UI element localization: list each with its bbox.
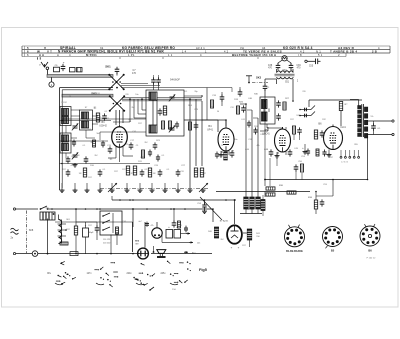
- pin circles B6: [340, 156, 342, 158]
- capacitor C24: [99, 169, 101, 172]
- wire SK2 to B3: [115, 110, 117, 125]
- svg-text:2: 2: [338, 53, 340, 57]
- ground row: [61, 189, 63, 191]
- wire speaker lo: [367, 134, 392, 136]
- svg-text:4 2: 4 2: [224, 50, 229, 54]
- svg-text:5k6: 5k6: [96, 133, 99, 135]
- left col parts: [73, 140, 75, 143]
- dial scale strip: [22, 45, 390, 47]
- svg-text:1 4: 1 4: [182, 50, 187, 54]
- electrolytic C56 C57: [166, 230, 173, 239]
- svg-text:R17: R17: [66, 229, 69, 231]
- IFT2 internal wires: [263, 109, 265, 113]
- svg-text:C31: C31: [180, 171, 183, 173]
- svg-text:4: 4: [200, 53, 202, 57]
- capacitor C1: [62, 64, 64, 67]
- coil S1: [60, 107, 71, 126]
- left col wires: [71, 109, 80, 111]
- svg-text:UCH42: UCH42: [99, 126, 107, 128]
- capacitor C15: [67, 156, 69, 159]
- wire SK2 grid bundle: [129, 99, 131, 122]
- tube B3 UCH42: [112, 127, 128, 147]
- svg-text:R17: R17: [138, 123, 141, 125]
- svg-text:245v: 245v: [161, 273, 167, 275]
- svg-text:A A: A A: [39, 53, 44, 57]
- wire v x196: [195, 99, 197, 166]
- svg-text:0.1: 0.1: [103, 169, 106, 171]
- svg-text:C9: C9: [267, 87, 269, 89]
- svg-text:S50 S51: S50 S51: [246, 209, 255, 211]
- svg-text:R17: R17: [88, 225, 91, 227]
- svg-text:200 220: 200 220: [103, 243, 111, 245]
- wire under striped: [240, 213, 262, 215]
- fuse holder: [70, 252, 78, 256]
- capacitor C18: [154, 142, 156, 145]
- wire box left: [59, 88, 61, 190]
- wire R36 link: [332, 180, 334, 197]
- ground C49: [304, 150, 306, 152]
- capacitor C17: [130, 142, 132, 145]
- capacitor C22: [159, 108, 161, 111]
- capacitor C23b: [176, 122, 178, 125]
- svg-text:39p: 39p: [194, 91, 197, 93]
- resistor R41 striped: [247, 229, 252, 240]
- wire y132: [100, 131, 146, 133]
- capacitor C55: [305, 60, 307, 62]
- mains symbol: [11, 228, 19, 234]
- wire y119: [62, 118, 146, 120]
- resistor R2: [96, 113, 99, 122]
- resistor R40: [214, 227, 218, 238]
- svg-text:I 8: I 8: [298, 53, 302, 57]
- svg-text:F 142 12: F 142 12: [367, 257, 376, 259]
- mains terminal top: [13, 208, 15, 210]
- svg-text:C1 S1: C1 S1: [94, 93, 100, 95]
- transformer secondary: [364, 107, 367, 112]
- svg-text:47k: 47k: [98, 117, 101, 119]
- junction dots buses: [132, 199, 134, 201]
- wire bus y179: [265, 179, 368, 181]
- wire IFT2 to B5: [266, 124, 268, 128]
- transformer S55 core: [361, 104, 363, 137]
- ground B5: [276, 154, 278, 156]
- speaker plug: [157, 250, 166, 254]
- resistor R12: [148, 168, 151, 177]
- resistor R15: [188, 122, 191, 130]
- dots bus253: [47, 253, 49, 255]
- gang dashline SK8: [26, 211, 28, 254]
- resistor R10: [83, 168, 86, 177]
- svg-text:B4: B4: [208, 124, 212, 128]
- wire trafo top: [350, 99, 359, 101]
- IF transformer S20 can: [146, 90, 184, 136]
- svg-text:C31: C31: [314, 135, 317, 137]
- wire misc top: [231, 88, 233, 92]
- capacitor C58: [204, 203, 206, 206]
- fuse VL1: [32, 251, 38, 257]
- socket B5: [323, 227, 343, 247]
- svg-text:4n7: 4n7: [138, 221, 141, 223]
- svg-text:127v: 127v: [87, 273, 93, 275]
- capacitor C27: [177, 169, 179, 172]
- cluster R26: [236, 106, 239, 114]
- svg-text:N PARACH GHIP WRIPECHL IBOLE R: N PARACH GHIP WRIPECHL IBOLE RVI GELIJ R…: [58, 50, 164, 54]
- svg-text:10n: 10n: [135, 94, 138, 96]
- grid parts R34: [314, 130, 317, 139]
- contact extra: [150, 287, 154, 290]
- svg-text:C31: C31: [140, 157, 143, 159]
- wire sel to bus: [110, 235, 112, 254]
- resistor R63: [116, 227, 119, 234]
- capacitor C25: [141, 169, 143, 172]
- IFT2 winding b: [262, 112, 268, 121]
- ground stubs: [61, 183, 63, 189]
- wire bus y191: [216, 191, 310, 193]
- svg-text:N 1: N 1: [316, 50, 321, 54]
- trimmer C11: [73, 125, 78, 127]
- svg-text:C31: C31: [178, 225, 181, 227]
- svg-text:R17: R17: [122, 169, 125, 171]
- capacitor C33: [221, 94, 223, 97]
- wire trafo down: [367, 136, 369, 180]
- svg-text:0.1: 0.1: [89, 129, 92, 131]
- coil S5: [80, 110, 93, 130]
- electrolytic C60: [83, 228, 89, 237]
- svg-text:47k: 47k: [58, 225, 61, 227]
- svg-text:SK8: SK8: [29, 229, 34, 232]
- svg-text:0.1: 0.1: [162, 155, 165, 157]
- filter S60: [40, 212, 55, 220]
- socket B6: [360, 226, 380, 246]
- coil S34: [277, 71, 294, 73]
- cluster R36: [314, 200, 317, 209]
- svg-text:UF41: UF41: [207, 129, 214, 132]
- svg-text:1M: 1M: [77, 155, 80, 157]
- wire to ballast: [132, 209, 134, 227]
- contact cluster 3: [144, 283, 147, 285]
- capacitor C14: [104, 113, 106, 116]
- resistor R14: [141, 150, 144, 158]
- wire osc left: [276, 79, 278, 84]
- IFT1 winding a: [149, 92, 157, 100]
- svg-text:0.1: 0.1: [83, 145, 86, 147]
- resistor R6: [163, 106, 166, 115]
- wire antenna down: [46, 70, 48, 76]
- svg-text:110 125: 110 125: [103, 239, 111, 241]
- capacitor C44: [231, 150, 233, 153]
- phones jack C51: [300, 115, 311, 117]
- small parts right mid: [295, 164, 297, 167]
- capacitor C41: [264, 79, 266, 85]
- tap wires: [58, 223, 67, 225]
- resistor R1 box: [54, 67, 60, 72]
- wire v x252: [251, 110, 253, 197]
- svg-text:W: W: [37, 50, 40, 54]
- wire S34 sides: [276, 69, 278, 73]
- svg-text:C14: C14: [210, 107, 213, 109]
- svg-text:B1·B2·B3·B4h: B1·B2·B3·B4h: [286, 250, 303, 253]
- wire top right bus: [309, 99, 362, 101]
- svg-text:C31: C31: [86, 119, 89, 121]
- svg-text:2k2: 2k2: [144, 142, 147, 144]
- svg-text:C14: C14: [132, 131, 135, 133]
- svg-text:R17: R17: [88, 177, 91, 179]
- wire v265: [264, 180, 266, 187]
- svg-text:R12: R12: [322, 119, 325, 121]
- svg-text:94660F: 94660F: [170, 78, 180, 82]
- svg-text:220: 220: [302, 91, 305, 93]
- capacitor C49: [289, 149, 291, 152]
- svg-text:2 B: 2 B: [372, 50, 377, 54]
- svg-text:1 1: 1 1: [168, 53, 173, 57]
- svg-text:50: 50: [217, 111, 219, 113]
- svg-text:10n: 10n: [234, 139, 237, 141]
- capacitor C53: [307, 149, 309, 152]
- contact cluster 1: [56, 280, 59, 282]
- wire v x190: [189, 99, 191, 188]
- wire v x246: [245, 104, 247, 197]
- magic eye B9: [138, 248, 149, 259]
- trimmer arrow C30: [108, 183, 117, 192]
- svg-text:2k2: 2k2: [220, 239, 223, 241]
- wire B4 top: [225, 120, 227, 126]
- trimmer C21: [170, 127, 175, 129]
- wire osc right: [292, 79, 294, 101]
- wire AVC: [60, 163, 151, 165]
- wire v x202: [201, 101, 203, 166]
- capacitor C34: [239, 89, 241, 92]
- IFT1 winding b: [149, 125, 157, 133]
- svg-text:ZD: ZD: [55, 65, 58, 67]
- connector J1: [70, 68, 76, 72]
- wire det vertical: [269, 158, 271, 186]
- resistor R23 striped: [256, 197, 261, 209]
- strip ticks: [37, 57, 39, 59]
- svg-text:B7 AZ41: B7 AZ41: [220, 220, 229, 223]
- svg-text:4: 4: [69, 53, 71, 57]
- svg-text:+: +: [63, 60, 65, 64]
- capacitor C29: [195, 122, 197, 125]
- resistor R60: [60, 242, 68, 245]
- wire R61 leads: [75, 209, 77, 226]
- contact cluster 2: [113, 271, 116, 273]
- capacitor C46: [278, 113, 280, 116]
- svg-text:C31: C31: [248, 139, 251, 141]
- resistor R28: [292, 126, 295, 134]
- svg-text:S12: S12: [202, 173, 205, 175]
- wire band SK2 right: [122, 97, 202, 99]
- svg-text:S1 S2: S1 S2: [61, 102, 67, 104]
- svg-text:220v: 220v: [127, 273, 133, 275]
- trimmer C13: [73, 154, 78, 156]
- wire band SK1 right: [121, 83, 148, 85]
- svg-text:T ANDRE B 2B 4: T ANDRE B 2B 4: [330, 50, 357, 54]
- capacitor C42: [216, 152, 218, 155]
- capacitor C65: [185, 226, 187, 229]
- svg-text:R17: R17: [290, 119, 293, 121]
- plug P1: [49, 82, 54, 87]
- ballast lamp B8: [152, 228, 162, 238]
- wire lamp leads: [278, 60, 282, 63]
- svg-text:2k2: 2k2: [94, 155, 97, 157]
- ground B6: [328, 153, 330, 155]
- capacitor C39: [290, 63, 292, 66]
- wire IFT1 to B4: [184, 119, 218, 121]
- wire v down 226: [225, 151, 227, 197]
- mains switch SK7: [40, 208, 42, 210]
- svg-text:C14: C14: [122, 221, 125, 223]
- svg-text:470: 470: [132, 72, 137, 75]
- selector box SK9: [100, 211, 122, 235]
- autotransformer S61: [58, 220, 61, 244]
- svg-text:R7: R7: [94, 107, 96, 109]
- wire speaker hi: [367, 120, 392, 122]
- tube B4 UF41: [218, 128, 234, 151]
- capacitor C38: [277, 63, 279, 66]
- phones jack C50: [300, 109, 311, 111]
- resistor R9b: [168, 121, 171, 129]
- svg-text:4 2: 4 2: [300, 50, 305, 54]
- wire bus y207: [100, 208, 213, 210]
- resistor R35: [316, 149, 319, 156]
- wire right of IFT1: [184, 95, 202, 97]
- svg-text:R7: R7: [131, 173, 133, 175]
- wire IFT2 verts: [267, 127, 269, 131]
- resistor R8: [194, 168, 197, 177]
- svg-text:S3 S4: S3 S4: [61, 136, 67, 138]
- junction dots mid: [129, 98, 131, 100]
- wire rect right: [243, 232, 248, 234]
- resistor R22 striped: [250, 197, 255, 209]
- svg-text:R17: R17: [62, 169, 65, 171]
- resistor R33: [339, 102, 342, 111]
- wire rect top: [234, 200, 236, 224]
- resistor R61: [74, 226, 77, 235]
- svg-text:47k: 47k: [150, 225, 153, 227]
- tube B5 UBC41: [275, 129, 291, 152]
- svg-text:A: A: [57, 53, 59, 57]
- transformer primary: [358, 106, 361, 109]
- capacitor C45: [278, 100, 280, 103]
- svg-text:1 2 3 4 5: 1 2 3 4 5: [341, 162, 348, 164]
- svg-text:R17: R17: [114, 171, 117, 173]
- IF transformer S30 can: [260, 97, 275, 124]
- wire v x265 long: [264, 97, 266, 180]
- wire diag to rect: [200, 197, 222, 220]
- svg-text:5%: 5%: [371, 116, 374, 118]
- connector J2: [77, 68, 83, 72]
- wire filter down: [47, 219, 49, 254]
- svg-text:1M: 1M: [79, 173, 82, 175]
- svg-text:M 5501: M 5501: [86, 53, 97, 57]
- resistor R9: [200, 168, 203, 177]
- resistor R32: [287, 191, 296, 194]
- svg-text:0.1: 0.1: [145, 169, 148, 171]
- capacitor C48: [270, 149, 272, 152]
- svg-text:10n: 10n: [194, 171, 197, 173]
- svg-text:C9: C9: [126, 144, 128, 146]
- svg-text:2k2: 2k2: [131, 107, 134, 109]
- svg-text:C9: C9: [149, 155, 151, 157]
- svg-text:0.1: 0.1: [167, 169, 170, 171]
- svg-text:KG G2V R N SA 4: KG G2V R N SA 4: [283, 46, 313, 50]
- svg-text:SK3: SK3: [256, 76, 262, 80]
- capacitor C54: [373, 121, 375, 125]
- wire IFT1 internal: [152, 100, 154, 125]
- dial lamp E1: [282, 56, 287, 61]
- svg-text:6: 6: [27, 53, 29, 57]
- terminal arrow 1: [186, 233, 190, 235]
- capacitor C47: [248, 121, 250, 124]
- ground B4: [220, 153, 222, 155]
- resistor R30: [266, 187, 275, 190]
- svg-text:Fig5: Fig5: [199, 268, 207, 272]
- wire B5 bottom: [277, 152, 279, 154]
- svg-text:UL41: UL41: [340, 127, 346, 129]
- svg-text:30µF: 30µF: [88, 232, 94, 234]
- svg-text:245: 245: [197, 243, 200, 245]
- resistor R13: [126, 166, 129, 175]
- wire B4 bottom: [221, 151, 223, 153]
- capacitor C52: [324, 150, 326, 153]
- wire b3 bottom: [115, 147, 117, 158]
- wire top caps: [153, 75, 155, 78]
- wire bus y200: [112, 199, 236, 201]
- terminal arrow 2: [189, 241, 193, 243]
- svg-text:S51: S51: [285, 82, 290, 84]
- svg-text:47k: 47k: [70, 165, 73, 167]
- coil S3: [60, 133, 71, 153]
- aerial tap T: [246, 75, 252, 77]
- svg-text:C9: C9: [221, 145, 223, 147]
- svg-text:4: 4: [378, 46, 380, 50]
- wire C60 leads: [85, 222, 87, 228]
- trimmer arrow C31: [199, 183, 208, 192]
- antenna A1: [41, 62, 48, 67]
- svg-text:6: 6: [27, 50, 29, 54]
- svg-text:C31: C31: [230, 107, 233, 109]
- svg-text:V T: V T: [47, 50, 52, 54]
- resistor R27: [283, 102, 286, 110]
- capacitor C26: [159, 169, 161, 172]
- svg-text:1 P1: 1 P1: [128, 53, 135, 57]
- resistor R16: [210, 100, 213, 108]
- capacitor C62: [96, 225, 98, 228]
- svg-text:0.1: 0.1: [185, 91, 188, 93]
- capacitor C28: [67, 169, 69, 172]
- coil S51: [275, 73, 295, 75]
- power box right edge: [132, 222, 134, 252]
- terminal arrow 3: [184, 251, 188, 253]
- IFT2 winding a: [262, 100, 268, 109]
- gang line: [100, 188, 208, 190]
- contact cluster 4: [170, 273, 172, 275]
- wire B5 plate: [282, 127, 284, 129]
- svg-text:4n7: 4n7: [128, 119, 131, 121]
- svg-text:S12: S12: [296, 115, 299, 117]
- svg-text:R17: R17: [242, 245, 245, 247]
- capacitor C19: [109, 146, 111, 149]
- dots bus209: [75, 208, 77, 210]
- svg-text:S40 S41 S4: S40 S41 S4: [244, 206, 256, 208]
- resistor R19 striped: [224, 152, 228, 160]
- svg-text:1: 1: [205, 50, 207, 54]
- svg-text:B6: B6: [368, 249, 372, 253]
- svg-text:S34: S34: [282, 70, 287, 72]
- capacitor C64: [173, 220, 175, 223]
- capacitor C9: [158, 77, 160, 80]
- svg-text:B5: B5: [331, 249, 335, 253]
